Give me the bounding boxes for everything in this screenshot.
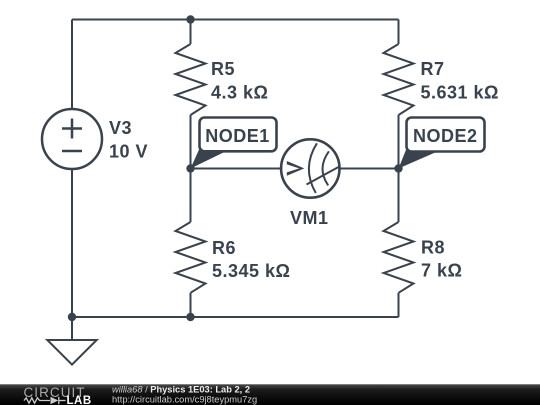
wire middle column top lead <box>190 20 192 45</box>
svg-text:7 kΩ: 7 kΩ <box>421 261 462 281</box>
svg-text:LAB: LAB <box>67 395 92 405</box>
wire middle column bottom lead <box>190 293 192 317</box>
svg-text:R7: R7 <box>421 59 445 79</box>
svg-text:VM1: VM1 <box>290 208 329 228</box>
junction dot NODE2 <box>394 164 402 172</box>
wire VM1 right lead <box>340 168 399 170</box>
svg-text:R8: R8 <box>421 238 445 258</box>
resistor R5 labels <box>211 59 268 103</box>
voltage source V3 labels <box>109 118 148 162</box>
svg-text:NODE2: NODE2 <box>413 126 478 146</box>
svg-text:willia68 / Physics 1E03: Lab 2: willia68 / Physics 1E03: Lab 2, 2 <box>112 385 250 395</box>
resistor R8 <box>384 222 414 293</box>
footer bar <box>0 384 540 405</box>
voltmeter VM1 label <box>290 208 329 228</box>
junction dot bottom left <box>68 313 76 321</box>
junction dot NODE1 <box>186 164 194 172</box>
footer text line 1 <box>112 385 257 405</box>
wire bottom horizontal <box>72 316 399 318</box>
junction dot top <box>186 15 194 23</box>
resistor R5 <box>176 44 206 115</box>
resistor R7 labels <box>421 59 500 103</box>
resistor R6 <box>176 222 206 293</box>
ground <box>47 340 96 365</box>
junction dot bottom middle <box>186 313 194 321</box>
svg-text:5.345 kΩ: 5.345 kΩ <box>212 261 291 281</box>
voltage source V3 <box>42 109 102 169</box>
node NODE2 flag <box>399 118 485 169</box>
svg-text:10 V: 10 V <box>109 141 148 161</box>
wire right column top lead <box>398 20 400 45</box>
svg-text:5.631 kΩ: 5.631 kΩ <box>421 83 500 103</box>
svg-text:4.3 kΩ: 4.3 kΩ <box>211 83 268 103</box>
svg-text:http://circuitlab.com/c9j8teyp: http://circuitlab.com/c9j8teypmu7zg <box>112 395 257 405</box>
resistor R7 <box>384 44 414 115</box>
resistor R8 labels <box>421 238 462 281</box>
svg-text:R5: R5 <box>211 59 235 79</box>
wire left column top <box>71 20 73 110</box>
wire top horizontal <box>72 19 399 21</box>
node NODE1 flag <box>191 118 277 169</box>
wire left column bottom <box>71 169 73 340</box>
resistor R6 labels <box>212 238 291 281</box>
wire VM1 left lead <box>191 168 282 170</box>
svg-text:V3: V3 <box>109 118 132 138</box>
wire middle column mid <box>190 115 192 222</box>
wire right column bottom lead <box>398 293 400 317</box>
CircuitLab logo <box>24 385 92 405</box>
wire right column mid <box>398 115 400 222</box>
voltmeter VM1 <box>281 139 339 197</box>
svg-text:R6: R6 <box>212 238 236 258</box>
svg-text:NODE1: NODE1 <box>205 126 270 146</box>
